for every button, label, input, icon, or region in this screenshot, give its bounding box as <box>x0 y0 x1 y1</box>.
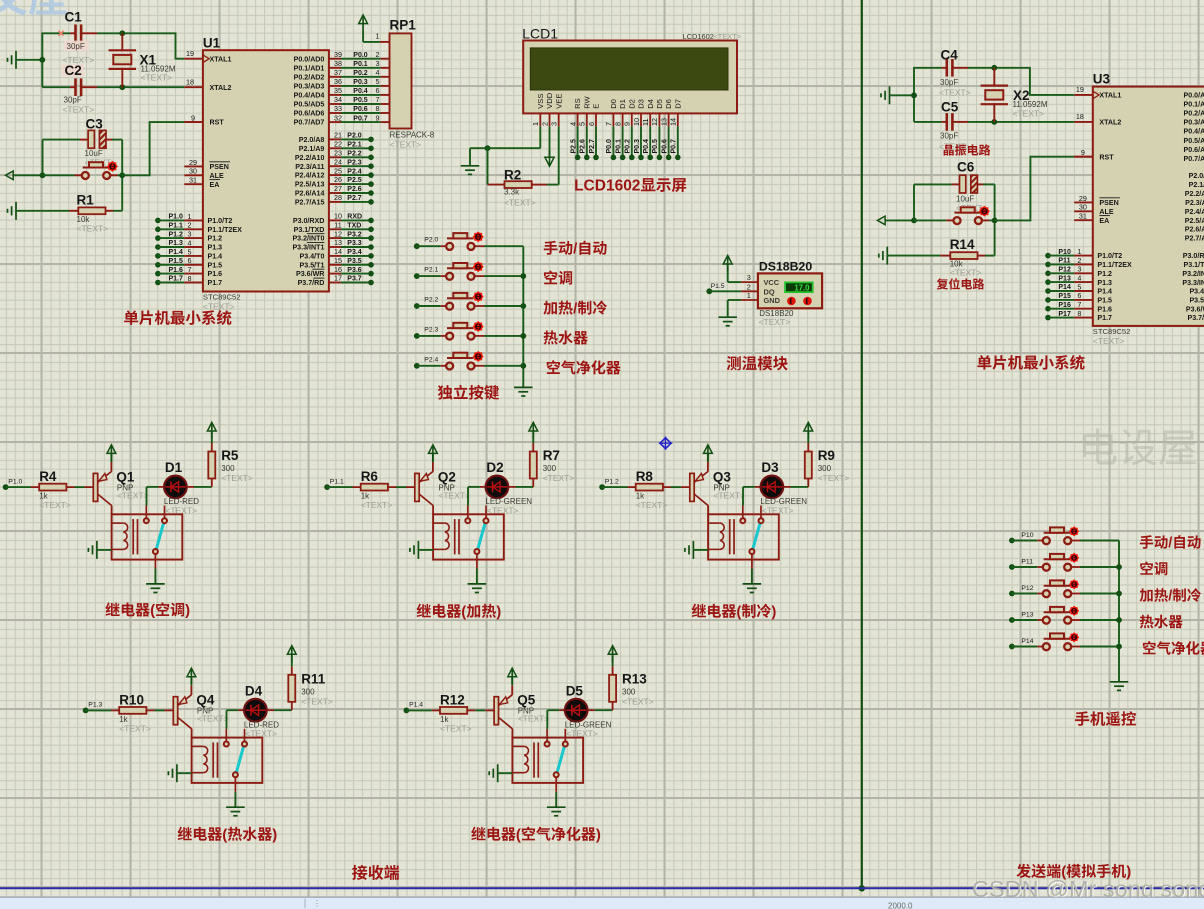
U3 pin name labels <box>1097 92 1204 323</box>
svg-text:RS: RS <box>573 98 582 109</box>
svg-text:P2.2/A10: P2.2/A10 <box>1185 190 1204 198</box>
svg-text:P12: P12 <box>1058 267 1071 274</box>
svg-text:/: / <box>1168 589 1172 605</box>
svg-text:P1.2: P1.2 <box>169 231 184 238</box>
wire XTAL1 net (C1-X1 top wire) <box>42 33 203 87</box>
svg-text:P11: P11 <box>1058 258 1070 265</box>
svg-text:DS18B20: DS18B20 <box>759 259 812 273</box>
ground (R14 left) <box>879 247 940 265</box>
svg-text:25: 25 <box>334 166 342 175</box>
resistor R14 <box>940 237 994 277</box>
svg-text:P2.7: P2.7 <box>347 195 362 202</box>
terminal arrow left (reset row) <box>6 171 43 180</box>
svg-text:Q2: Q2 <box>438 469 456 484</box>
svg-text:30pF: 30pF <box>940 78 958 87</box>
svg-text:P3.3/INT1: P3.3/INT1 <box>292 244 324 252</box>
svg-text:P2.5: P2.5 <box>347 177 362 184</box>
svg-text:P0.5/AD5: P0.5/AD5 <box>294 101 325 109</box>
svg-text:8: 8 <box>376 104 380 113</box>
svg-text:P2.6/A14: P2.6/A14 <box>1185 226 1204 234</box>
svg-text:): ) <box>496 604 501 621</box>
ground (relay common) <box>468 569 487 593</box>
svg-text:⋮: ⋮ <box>313 899 321 908</box>
svg-text:D4: D4 <box>245 684 263 699</box>
svg-text:VDD: VDD <box>545 92 554 109</box>
watermark CSDN <box>972 876 1204 903</box>
svg-text:P2.1/A9: P2.1/A9 <box>1189 181 1204 189</box>
svg-text:<TEXT>: <TEXT> <box>713 490 745 500</box>
svg-text:R1: R1 <box>77 192 95 207</box>
svg-text:6: 6 <box>587 122 596 126</box>
svg-text:D5: D5 <box>655 99 664 109</box>
svg-text:<TEXT>: <TEXT> <box>504 198 536 208</box>
push button P2.2 (独立按键) <box>414 291 523 310</box>
svg-text:29: 29 <box>1079 194 1087 203</box>
junction node XTAL2/X2 <box>991 119 997 125</box>
svg-text:3: 3 <box>747 273 751 282</box>
svg-text:P12: P12 <box>1021 585 1033 592</box>
capacitor C2 <box>62 63 95 115</box>
svg-text:P0.3/AD3: P0.3/AD3 <box>1184 119 1204 127</box>
svg-text:19: 19 <box>1076 85 1084 94</box>
wire XTAL1 net U3 <box>914 68 1093 122</box>
svg-text:P0.0: P0.0 <box>353 52 368 59</box>
svg-text:R8: R8 <box>636 469 654 484</box>
ground (relay coil) <box>685 541 708 559</box>
push button reset U1 <box>82 162 110 179</box>
relay (coil + switch) <box>512 729 583 792</box>
LED D4 (LED-RED) <box>227 684 292 739</box>
ground (relay common) <box>743 569 762 593</box>
svg-text:P1.4: P1.4 <box>1097 288 1112 296</box>
svg-text:<TEXT>: <TEXT> <box>165 505 197 515</box>
capacitor C5 <box>939 99 971 151</box>
ground (relay common) <box>146 569 165 593</box>
microcontroller U3 <box>1093 72 1204 326</box>
svg-text:R7: R7 <box>543 448 560 463</box>
svg-text:<TEXT>: <TEXT> <box>543 473 575 483</box>
svg-text:P3.3: P3.3 <box>347 240 362 247</box>
svg-text:P1.5: P1.5 <box>711 283 725 290</box>
svg-text:(: ( <box>461 604 466 621</box>
svg-text:6: 6 <box>188 256 192 265</box>
svg-text:36: 36 <box>334 77 342 86</box>
svg-text:30: 30 <box>1079 203 1087 212</box>
caption 接收端 <box>352 865 367 880</box>
caption 手机遥控 <box>1075 711 1089 726</box>
svg-text:P1.1: P1.1 <box>169 223 184 230</box>
svg-text:30: 30 <box>189 167 197 176</box>
DS18B20 value labels <box>759 309 794 327</box>
svg-text:P1.0: P1.0 <box>169 214 184 221</box>
svg-text:<TEXT>: <TEXT> <box>390 139 422 149</box>
svg-text:P3.0/RXD: P3.0/RXD <box>293 217 325 225</box>
svg-text:30pF: 30pF <box>940 131 958 140</box>
svg-text:ALE: ALE <box>210 172 224 180</box>
power arrow (Q4 emitter) <box>187 668 196 695</box>
status strip bottom <box>0 897 1204 909</box>
wire Q4 collector to relay <box>191 729 193 738</box>
ground (relay coil) <box>410 541 433 559</box>
junction node U3 reset right <box>992 218 998 224</box>
svg-text:38: 38 <box>334 59 342 68</box>
svg-text:D3: D3 <box>637 99 646 109</box>
caption 继电器(加热) <box>417 604 431 618</box>
U1 P2 port wires with net terminals <box>329 131 374 205</box>
crystal X1 <box>109 33 176 87</box>
svg-text:R14: R14 <box>950 237 975 252</box>
svg-text:RW: RW <box>582 95 591 108</box>
svg-text:/: / <box>1168 536 1172 552</box>
svg-text:P0.6/AD6: P0.6/AD6 <box>294 110 325 118</box>
microcontroller U1 <box>203 35 329 291</box>
svg-text:P2.5: P2.5 <box>570 139 577 154</box>
ground (crystal left) <box>8 51 43 69</box>
wire Q5 collector to relay <box>511 729 513 738</box>
svg-text:3: 3 <box>550 122 559 126</box>
selection marker (blue) <box>659 437 673 450</box>
svg-text:13: 13 <box>659 118 668 126</box>
svg-text:P0.6: P0.6 <box>353 106 368 113</box>
svg-text:P2.4/A12: P2.4/A12 <box>1185 208 1204 216</box>
svg-text:P0.3: P0.3 <box>634 139 641 154</box>
svg-text:<TEXT>: <TEXT> <box>818 473 850 483</box>
svg-text:P1.7: P1.7 <box>1097 314 1112 322</box>
svg-text:23: 23 <box>334 149 342 158</box>
ground (relay coil) <box>489 764 512 782</box>
power arrow (R11 top) <box>287 646 296 655</box>
U1 package label STC89C52 <box>203 292 241 311</box>
LCD display LCD1 <box>522 26 741 114</box>
svg-text:P3.7/RD: P3.7/RD <box>1187 314 1204 322</box>
caption 晶振电路 <box>944 145 954 156</box>
svg-text:PSEN: PSEN <box>210 163 229 171</box>
svg-text:P2.3: P2.3 <box>424 326 438 333</box>
svg-text:13: 13 <box>334 238 342 247</box>
resistor R10 <box>111 692 165 733</box>
svg-text:P1.5: P1.5 <box>208 261 223 269</box>
label 手动/自动 (遥控) <box>1140 535 1153 549</box>
svg-text:<TEXT>: <TEXT> <box>636 500 668 510</box>
svg-text:7: 7 <box>188 265 192 274</box>
wire C3 right / button right / R1 vertical <box>110 140 122 211</box>
svg-text:P3.3/INT1: P3.3/INT1 <box>1182 279 1204 287</box>
resistor pack RP1 <box>376 18 435 150</box>
transistor Q2 (PNP) <box>406 469 470 505</box>
svg-text:<TEXT>: <TEXT> <box>1093 336 1125 346</box>
caption 发送端(模拟手机) <box>1016 864 1030 878</box>
svg-text:15: 15 <box>334 256 342 265</box>
U1 left pin numbers <box>184 49 203 185</box>
svg-text:P0.1: P0.1 <box>615 139 622 154</box>
LED D1 (LED-RED) <box>147 460 212 515</box>
svg-text:<TEXT>: <TEXT> <box>301 697 333 707</box>
svg-text:P2.5/A13: P2.5/A13 <box>295 181 325 189</box>
junction node XTAL1/X2 <box>991 65 997 71</box>
push button P2.3 (独立按键) <box>414 321 523 340</box>
resistor R12 <box>432 692 486 733</box>
svg-text:<TEXT>: <TEXT> <box>950 268 982 278</box>
svg-text:33: 33 <box>334 104 342 113</box>
svg-text:P14: P14 <box>1058 284 1071 291</box>
svg-text:XTAL1: XTAL1 <box>210 55 232 63</box>
push button P2.1 (独立按键) <box>414 261 523 280</box>
svg-text:P0.0: P0.0 <box>606 139 613 154</box>
label 空调 <box>544 271 557 285</box>
power arrow (R5 top) <box>207 422 216 431</box>
svg-text:P1.1: P1.1 <box>330 478 344 485</box>
label 手动/自动 <box>544 241 558 255</box>
svg-text:P3.7: P3.7 <box>347 276 362 283</box>
U3 package label STC89C52 <box>1093 327 1131 346</box>
wire C6 left vertical <box>913 184 915 220</box>
svg-text:D4: D4 <box>646 99 655 109</box>
svg-text:D2: D2 <box>627 99 636 109</box>
svg-text:Q3: Q3 <box>713 469 732 484</box>
svg-text:XTAL2: XTAL2 <box>210 84 232 92</box>
svg-text:P3.4: P3.4 <box>347 249 362 256</box>
svg-text:P0.2/AD2: P0.2/AD2 <box>1184 110 1204 118</box>
caption 继电器(制冷) <box>692 604 706 618</box>
net terminal P1.0 <box>3 478 23 490</box>
net terminal P1.3 <box>83 702 103 714</box>
svg-text:P0.4/AD4: P0.4/AD4 <box>294 92 325 100</box>
svg-text:P0.7: P0.7 <box>671 139 678 154</box>
junction node VSS/R2 <box>485 145 491 151</box>
crystal X2 <box>981 68 1048 122</box>
svg-text:P2.0/A8: P2.0/A8 <box>1189 172 1204 180</box>
svg-text:9: 9 <box>623 122 632 126</box>
svg-text:Q1: Q1 <box>116 469 135 484</box>
svg-text:10: 10 <box>632 118 641 126</box>
U3 P1 port pins with net terminals <box>1045 247 1093 320</box>
watermark top-left <box>0 0 66 16</box>
svg-text:P2.1/A9: P2.1/A9 <box>299 145 325 153</box>
svg-text:30pF: 30pF <box>64 96 82 105</box>
DS18B20 adjust markers <box>787 297 812 306</box>
svg-text:9: 9 <box>376 113 380 122</box>
net terminal P1.5 (DQ) <box>706 283 741 294</box>
svg-text:P2.2/A10: P2.2/A10 <box>295 154 325 162</box>
svg-text:VSS: VSS <box>536 94 545 109</box>
caption 测温模块 <box>727 356 741 370</box>
svg-text:P3.6: P3.6 <box>347 267 362 274</box>
svg-text:1: 1 <box>376 32 380 41</box>
svg-text:P0.6/AD6: P0.6/AD6 <box>1184 146 1204 154</box>
svg-text:P2.0: P2.0 <box>347 133 362 140</box>
svg-text:P2.3/A11: P2.3/A11 <box>295 163 324 171</box>
wire long vertical net (sheet divider) <box>859 0 865 892</box>
sheet border blue line <box>0 887 1204 889</box>
svg-text:21: 21 <box>334 131 342 140</box>
svg-text:P2.7/A15: P2.7/A15 <box>295 199 325 207</box>
svg-text:P15: P15 <box>1058 293 1071 300</box>
svg-text:P3.4/T0: P3.4/T0 <box>1189 288 1204 296</box>
svg-text:<TEXT>: <TEXT> <box>939 142 971 152</box>
terminal arrow left U3 reset <box>877 216 914 225</box>
svg-text:4: 4 <box>1077 274 1081 283</box>
svg-text:<TEXT>: <TEXT> <box>713 32 741 41</box>
svg-text:2: 2 <box>376 50 380 59</box>
relay (coil + switch) <box>192 729 263 792</box>
svg-text:P2.0: P2.0 <box>424 237 438 244</box>
junction node reset right <box>119 172 125 178</box>
svg-text:): ) <box>596 827 601 844</box>
svg-text:5: 5 <box>1077 282 1081 291</box>
svg-text:P1.6: P1.6 <box>169 267 184 274</box>
svg-text:P0.4/AD4: P0.4/AD4 <box>1184 128 1204 136</box>
svg-text:P1.4: P1.4 <box>409 702 423 709</box>
label 加热/制冷 (遥控) <box>1140 588 1153 601</box>
svg-text:P2.4: P2.4 <box>347 168 362 175</box>
svg-text:R4: R4 <box>39 469 57 484</box>
svg-text:P3.5/T1: P3.5/T1 <box>300 261 325 269</box>
power arrow (R7 top) <box>529 422 538 431</box>
resistor R2 <box>488 148 536 207</box>
ground (relay common) <box>547 792 566 816</box>
LCD data/net wires with terminals <box>570 126 680 160</box>
push button P14 (手机遥控) <box>1009 632 1119 650</box>
svg-text:<TEXT>: <TEXT> <box>566 729 598 739</box>
svg-text:P3.1/TXD: P3.1/TXD <box>1184 261 1204 269</box>
DS18B20 pin stubs and numbers <box>741 273 758 300</box>
svg-text:<TEXT>: <TEXT> <box>440 723 472 733</box>
svg-text:P2.6/A14: P2.6/A14 <box>295 190 325 198</box>
svg-text:3: 3 <box>1077 265 1081 274</box>
svg-text:P0.5: P0.5 <box>353 97 368 104</box>
svg-text:29: 29 <box>189 158 197 167</box>
ground (X2 left) <box>881 86 914 104</box>
svg-text:P3.7/RD: P3.7/RD <box>298 279 325 287</box>
push button P2.4 (独立按键) <box>414 351 523 370</box>
wire Q3 collector to relay <box>707 505 709 514</box>
svg-text:R2: R2 <box>504 168 521 183</box>
svg-text:RST: RST <box>1099 153 1114 161</box>
svg-text:P3.1/TXD: P3.1/TXD <box>294 226 325 234</box>
svg-text:P0.1/AD1: P0.1/AD1 <box>294 64 325 72</box>
U3 clock input marker <box>1093 91 1099 98</box>
svg-text:11: 11 <box>334 221 341 230</box>
svg-text:17: 17 <box>334 274 342 283</box>
svg-text:2: 2 <box>188 221 192 230</box>
resistor R7 <box>530 431 575 487</box>
svg-text:P3.6/WR: P3.6/WR <box>296 270 324 278</box>
svg-text:LCD1602: LCD1602 <box>683 32 714 41</box>
capacitor C4 <box>939 48 971 98</box>
svg-text:P11: P11 <box>1021 559 1033 566</box>
junction node U3 left vertical <box>911 92 917 98</box>
U1 P1 port pins with net terminals <box>155 212 203 286</box>
svg-text:P3.5: P3.5 <box>347 258 362 265</box>
svg-text:P13: P13 <box>1058 275 1071 282</box>
svg-text:P0.3: P0.3 <box>353 79 368 86</box>
svg-text:P1.4: P1.4 <box>208 253 223 261</box>
svg-text:P1.4: P1.4 <box>169 249 184 256</box>
svg-text:1: 1 <box>188 212 192 221</box>
svg-text:8: 8 <box>188 274 192 283</box>
svg-text:R9: R9 <box>818 448 835 463</box>
svg-text:34: 34 <box>334 95 342 104</box>
svg-text:2: 2 <box>747 282 751 291</box>
wire reset node to RST pin <box>122 122 203 175</box>
svg-text:7: 7 <box>376 95 380 104</box>
resistor R13 <box>609 655 654 711</box>
svg-text:RP1: RP1 <box>390 18 417 33</box>
label 空气净化器 <box>547 360 560 374</box>
svg-text:C4: C4 <box>941 48 959 63</box>
svg-text:<TEXT>: <TEXT> <box>245 729 277 739</box>
svg-text:P2.3/A11: P2.3/A11 <box>1185 199 1204 207</box>
svg-text:R13: R13 <box>622 671 647 686</box>
LCD1 pins <box>531 92 682 126</box>
wire XTAL2 net (C2 bottom wire) <box>42 86 203 88</box>
watermark right 电设屋 <box>1083 428 1196 465</box>
svg-text:P3.2/INT0: P3.2/INT0 <box>292 235 324 243</box>
resistor R4 <box>31 469 85 510</box>
svg-text:6: 6 <box>376 86 380 95</box>
U3 left pin numbers <box>1074 85 1093 221</box>
svg-text:D6: D6 <box>664 99 673 109</box>
LED D3 (LED-GREEN) <box>743 460 808 515</box>
svg-text:PSEN: PSEN <box>1099 199 1118 207</box>
wire P1.0 to R4 <box>6 486 31 488</box>
svg-text:1: 1 <box>531 122 540 126</box>
svg-text:P2.7: P2.7 <box>589 139 596 154</box>
push button P10 (手机遥控) <box>1009 526 1119 544</box>
capacitor C6 (electrolytic) <box>914 160 995 213</box>
svg-text:P0.2: P0.2 <box>625 139 632 154</box>
svg-text:STC89C52: STC89C52 <box>203 292 241 301</box>
svg-text:RXD: RXD <box>347 214 362 221</box>
svg-text:37: 37 <box>334 68 342 77</box>
svg-text:TXD: TXD <box>347 223 361 230</box>
svg-text:): ) <box>771 604 776 621</box>
svg-text:<TEXT>: <TEXT> <box>141 73 173 83</box>
svg-text:300: 300 <box>301 687 315 696</box>
svg-text:8: 8 <box>613 122 622 126</box>
svg-text:6: 6 <box>1077 291 1081 300</box>
svg-text:LCD1: LCD1 <box>522 26 558 42</box>
svg-text:P2.4/A12: P2.4/A12 <box>295 172 325 180</box>
svg-text:<TEXT>: <TEXT> <box>1013 109 1045 119</box>
ground (LCD VSS) <box>461 165 480 167</box>
push button P2.0 (独立按键) <box>414 231 523 250</box>
svg-text:): ) <box>185 602 190 619</box>
svg-text:11: 11 <box>641 119 650 126</box>
svg-text:3: 3 <box>376 59 380 68</box>
svg-text:P3.0/RXD: P3.0/RXD <box>1183 252 1204 260</box>
LED D5 (LED-GREEN) <box>547 684 612 739</box>
svg-text:P1.6: P1.6 <box>208 270 223 278</box>
ground (R1 left) <box>8 202 70 220</box>
button marker U3 (red) <box>979 206 990 217</box>
svg-text:P1.6: P1.6 <box>1097 305 1112 313</box>
resistor R9 <box>805 431 850 487</box>
power arrow (R13 top) <box>608 646 617 655</box>
svg-text:P1.1/T2EX: P1.1/T2EX <box>1097 261 1132 269</box>
svg-text:1: 1 <box>747 291 751 300</box>
svg-text:LCD1602: LCD1602 <box>574 178 640 195</box>
U1 P3 port wires with net terminals <box>329 212 374 286</box>
svg-text:Q4: Q4 <box>196 693 215 708</box>
svg-text:4: 4 <box>188 238 192 247</box>
power arrow (Q3 emitter) <box>704 445 713 472</box>
transistor Q5 (PNP) <box>485 693 549 729</box>
svg-text:<TEXT>: <TEXT> <box>77 224 109 234</box>
svg-text:P1.0/T2: P1.0/T2 <box>208 217 233 225</box>
svg-text:GND: GND <box>764 296 781 305</box>
svg-text:P0.7: P0.7 <box>353 115 368 122</box>
